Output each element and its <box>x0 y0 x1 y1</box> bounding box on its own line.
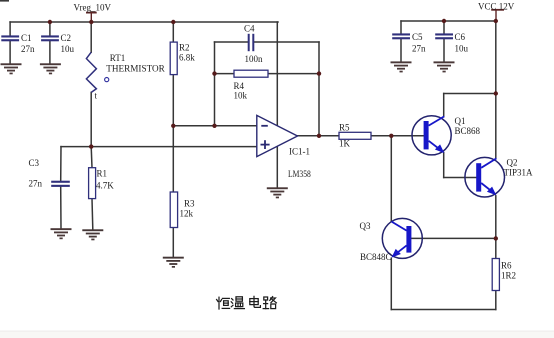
svg-text:1K: 1K <box>339 139 351 149</box>
char 路 <box>263 297 276 309</box>
node C6/rail <box>442 19 446 23</box>
wire: R1 bottom lead <box>91 199 94 230</box>
capacitor C2 <box>41 35 59 41</box>
svg-text:THERMISTOR: THERMISTOR <box>106 64 165 74</box>
svg-text:C5: C5 <box>412 32 423 42</box>
node VCC stem <box>494 19 498 23</box>
transistor Q2 emitter arrow <box>487 187 496 196</box>
node R2/rail <box>171 20 175 24</box>
wire: R1 top lead <box>90 147 93 168</box>
wire: feedback right vertical <box>318 42 320 136</box>
svg-text:10u: 10u <box>455 44 469 54</box>
node RT1/R1/plus <box>89 144 93 148</box>
power port VCC 12V <box>491 10 504 21</box>
node Q3 base/R6 <box>494 236 498 240</box>
svg-text:100n: 100n <box>245 54 264 64</box>
ground under R3 <box>163 257 184 268</box>
svg-text:R2: R2 <box>179 43 190 53</box>
capacitor C3 <box>51 181 70 187</box>
transistor Q2 emitter stroke <box>481 183 492 192</box>
svg-text:TIP31A: TIP31A <box>504 168 534 178</box>
transistor Q1 circle <box>412 116 451 155</box>
node output/feedback <box>317 134 321 138</box>
capacitor C4 <box>248 34 255 51</box>
ground under C2 <box>40 63 61 74</box>
transistor Q3 circle <box>382 218 422 258</box>
wire: Q3 collector vertical <box>390 136 392 222</box>
transistor Q1 emitter arrow <box>435 144 444 153</box>
wire: RT1 bottom lead to + node <box>90 92 92 146</box>
wire: C4 top wire left <box>215 41 248 43</box>
wire: C6 stem <box>443 21 445 34</box>
wire: Q1 emitter to Q2 base <box>444 177 477 179</box>
wire: C2 lower stem <box>49 41 51 63</box>
svg-text:Q3: Q3 <box>360 221 371 231</box>
svg-text:Q1: Q1 <box>455 116 466 126</box>
wire: Q2 emitter vertical <box>495 196 497 239</box>
wire: opamp ground lead <box>276 146 278 187</box>
wire: C6 lower stem <box>443 39 445 61</box>
wire: opamp V+ supply line <box>276 22 278 126</box>
svg-text:C6: C6 <box>455 32 466 42</box>
wire: bottom wire <box>391 309 496 311</box>
wire: C1 lower stem <box>9 41 11 63</box>
wire: Q1 collector vertical <box>443 94 445 117</box>
svg-text:10u: 10u <box>61 44 75 54</box>
wire: Q3 emitter vertical <box>390 258 392 309</box>
node Vreg/RT1 <box>89 20 93 24</box>
ground under C3 <box>51 228 72 239</box>
ground under C6 <box>434 61 455 72</box>
wire: R6 top lead <box>495 238 497 258</box>
svg-text:6.8k: 6.8k <box>179 53 195 63</box>
op-amp U1 triangle <box>257 115 298 156</box>
wire: Vreg top rail <box>10 21 278 23</box>
wire: Q1 emitter vertical <box>443 153 445 178</box>
wire: R2 top lead <box>172 22 174 42</box>
node output/Q3 <box>389 134 393 138</box>
svg-text:BC868: BC868 <box>455 126 481 136</box>
wire: C4 top wire right <box>254 41 319 43</box>
svg-text:27n: 27n <box>21 44 35 54</box>
ground under op-amp <box>267 187 288 198</box>
wire: R6 bottom lead <box>495 291 497 310</box>
wire: R3 bottom lead <box>172 228 174 257</box>
ground under C1 <box>1 63 22 74</box>
transistor Q2 collector stroke <box>481 158 496 167</box>
wire: C3 lower stem <box>60 187 62 228</box>
svg-text:VCC 12V: VCC 12V <box>478 2 515 12</box>
wire: C5 stem <box>400 21 402 34</box>
svg-text:RT1: RT1 <box>110 53 125 63</box>
svg-text:4.7K: 4.7K <box>96 181 114 191</box>
transistor Q1 collector stroke <box>429 116 445 125</box>
resistor R4 box <box>234 70 268 77</box>
thermistor RT1 zigzag <box>86 52 96 92</box>
wire: minus input wire <box>173 125 256 127</box>
transistor Q2 circle <box>465 157 505 197</box>
wire: C5 lower stem <box>400 39 402 61</box>
wire: R2 bottom lead to minus node <box>172 75 174 126</box>
capacitor C6 <box>435 33 453 39</box>
wire: R3 top lead <box>172 126 174 192</box>
top-left UI artifact <box>0 0 9 2</box>
svg-text:IC1-1: IC1-1 <box>289 147 310 157</box>
wire: feedback left vertical <box>214 42 216 126</box>
svg-text:BC848C: BC848C <box>360 252 392 262</box>
bottom window band <box>0 331 554 332</box>
svg-text:1R2: 1R2 <box>501 271 516 281</box>
capacitor C1 <box>1 35 19 41</box>
wire: C2 stem <box>49 22 51 36</box>
wire: R4 wire <box>215 73 320 75</box>
resistor R5 box <box>339 132 371 139</box>
svg-text:27n: 27n <box>29 179 43 189</box>
wire: C1 stem <box>9 22 11 36</box>
svg-text:C1: C1 <box>21 33 32 43</box>
svg-text:R6: R6 <box>501 261 512 271</box>
node C2/rail <box>48 20 52 24</box>
capacitor C5 <box>392 33 410 39</box>
transistor Q3 collector stroke <box>392 222 407 231</box>
svg-text:Vreg_10V: Vreg_10V <box>74 3 112 13</box>
power port Vreg_10V <box>86 13 97 22</box>
resistor R6 box <box>492 259 499 291</box>
char 温 <box>231 297 244 309</box>
node R2/minus <box>171 124 175 128</box>
svg-text:C3: C3 <box>29 158 40 168</box>
wire: opamp output to R5 <box>298 135 340 137</box>
svg-text:27n: 27n <box>412 44 426 54</box>
char 电 <box>250 296 261 307</box>
node feedback/minus <box>212 124 216 128</box>
ground under R1 <box>82 229 103 240</box>
wire: R5 to Q1 base <box>371 135 424 137</box>
op-amp plus sign <box>261 140 270 149</box>
transistor Q3 base bar <box>406 226 411 253</box>
resistor R2 box <box>170 42 177 75</box>
svg-text:R3: R3 <box>184 199 195 209</box>
node R4 left <box>212 71 216 75</box>
wire: VCC vertical to Q2 collector <box>495 21 497 159</box>
wire: Q3 base wire <box>412 237 496 239</box>
transistor Q1 base bar <box>424 121 429 149</box>
char 恒 <box>217 297 230 309</box>
transistor Q2 base bar <box>476 163 481 191</box>
op-amp minus sign <box>261 125 268 127</box>
node R4 right <box>317 71 321 75</box>
wire: Q1 collector horizontal <box>444 93 496 95</box>
wire: C3 stem <box>60 147 62 181</box>
svg-text:C4: C4 <box>244 24 255 34</box>
wire: VCC rail <box>401 20 496 22</box>
transistor Q1 emitter stroke <box>429 141 441 150</box>
svg-text:C2: C2 <box>61 33 72 43</box>
ground under C5 <box>391 61 412 72</box>
node Q1 collector/VCC <box>494 91 498 95</box>
svg-text:Q2: Q2 <box>507 158 518 168</box>
svg-text:12k: 12k <box>180 209 194 219</box>
svg-text:R4: R4 <box>234 81 245 91</box>
resistor R3 box <box>170 192 177 228</box>
wire: RT1 top lead <box>90 22 92 52</box>
svg-text:R1: R1 <box>97 169 108 179</box>
title 恒温电路 (hand-drawn CJK strokes) <box>217 296 277 309</box>
thermistor RT1 circle marker <box>105 78 109 82</box>
resistor R1 box <box>89 168 96 199</box>
transistor Q3 emitter arrow <box>392 249 401 258</box>
svg-text:LM358: LM358 <box>288 169 311 179</box>
wire: plus input wire <box>61 146 257 148</box>
transistor Q3 emitter stroke <box>395 245 406 254</box>
svg-text:10k: 10k <box>234 91 248 101</box>
svg-text:R5: R5 <box>339 123 350 133</box>
